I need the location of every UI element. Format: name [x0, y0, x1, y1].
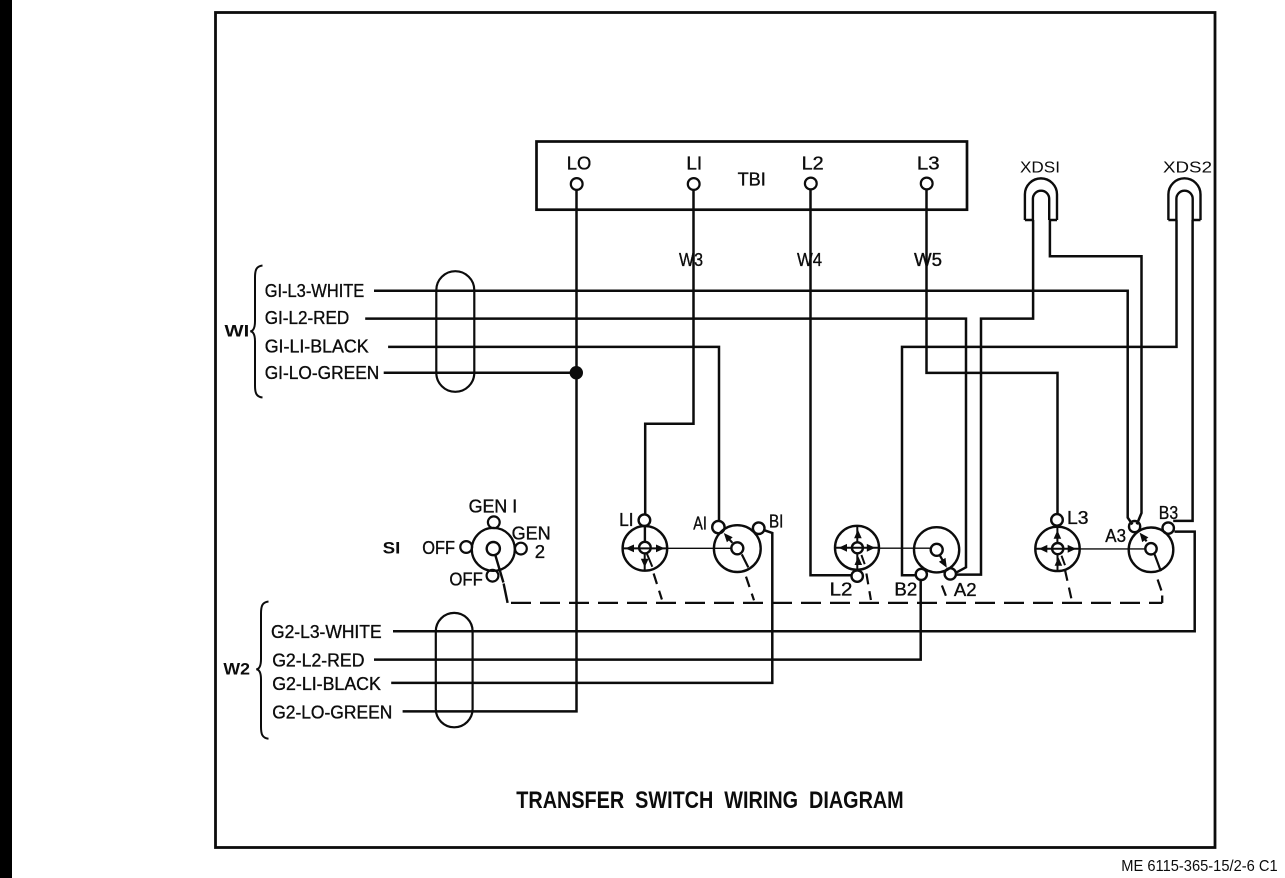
svg-text:G2-LI-BLACK: G2-LI-BLACK — [272, 674, 381, 694]
svg-text:ME 6115-365-15/2-6 C1: ME 6115-365-15/2-6 C1 — [1121, 858, 1277, 875]
svg-text:W4: W4 — [797, 250, 822, 270]
svg-text:XDSI: XDSI — [1020, 160, 1060, 177]
svg-text:GI-L3-WHITE: GI-L3-WHITE — [265, 281, 365, 301]
svg-text:OFF: OFF — [449, 569, 483, 589]
svg-text:W2: W2 — [223, 660, 250, 679]
svg-text:AI: AI — [693, 513, 707, 533]
svg-text:LI: LI — [686, 153, 702, 173]
svg-text:W3: W3 — [679, 250, 703, 270]
svg-text:L2: L2 — [802, 154, 824, 174]
svg-text:WI: WI — [225, 322, 250, 341]
svg-text:GI-LO-GREEN: GI-LO-GREEN — [265, 363, 380, 383]
svg-text:GEN: GEN — [512, 524, 551, 544]
svg-text:A3: A3 — [1105, 526, 1126, 546]
svg-text:TRANSFER SWITCH WIRING DIAG: TRANSFER SWITCH WIRING DIAGRAM — [516, 787, 903, 814]
svg-text:GI-LI-BLACK: GI-LI-BLACK — [265, 336, 369, 356]
svg-text:LI: LI — [619, 510, 633, 530]
svg-text:G2-L2-RED: G2-L2-RED — [272, 650, 364, 670]
svg-text:B2: B2 — [894, 580, 917, 600]
svg-text:2: 2 — [535, 542, 545, 562]
svg-text:LO: LO — [567, 153, 592, 173]
svg-text:L3: L3 — [1067, 508, 1089, 528]
svg-text:TBI: TBI — [738, 170, 766, 190]
svg-text:OFF: OFF — [422, 538, 455, 558]
svg-text:L2: L2 — [830, 580, 853, 600]
svg-text:SI: SI — [383, 538, 401, 557]
svg-text:GEN I: GEN I — [469, 497, 518, 517]
svg-text:XDS2: XDS2 — [1163, 160, 1212, 177]
svg-text:B3: B3 — [1159, 503, 1178, 523]
svg-text:L3: L3 — [917, 154, 940, 174]
svg-text:G2-LO-GREEN: G2-LO-GREEN — [272, 703, 392, 723]
svg-text:G2-L3-WHITE: G2-L3-WHITE — [271, 622, 382, 642]
svg-text:W5: W5 — [914, 250, 942, 270]
svg-text:GI-L2-RED: GI-L2-RED — [265, 308, 350, 328]
svg-text:BI: BI — [769, 512, 783, 532]
svg-text:A2: A2 — [954, 580, 977, 600]
